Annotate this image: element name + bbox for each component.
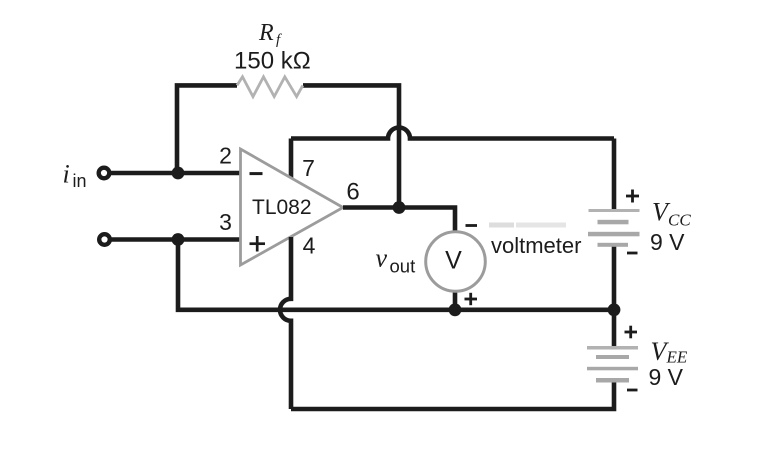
voltmeter plus sign xyxy=(465,293,478,305)
erased artifact smudge near voltmeter label xyxy=(489,223,566,228)
wire input pin3 horizontal xyxy=(111,237,241,242)
wire right rail top to VCC xyxy=(612,139,617,213)
wire pin7 vertical xyxy=(289,139,294,179)
op-amp plus input sign xyxy=(250,236,266,252)
op-amp U1 triangle xyxy=(241,149,344,265)
svg-text:3: 3 xyxy=(219,209,232,235)
wire output pin6 to voltmeter top xyxy=(343,208,455,235)
battery VEE plus sign xyxy=(625,326,638,339)
svg-text:9 V: 9 V xyxy=(650,229,685,255)
svg-text:150 kΩ: 150 kΩ xyxy=(234,48,311,75)
battery VCC plus sign xyxy=(626,190,639,203)
label iin xyxy=(63,160,87,192)
svg-text:4: 4 xyxy=(303,233,316,259)
svg-text:7: 7 xyxy=(302,155,315,181)
svg-text:V: V xyxy=(445,247,462,275)
svg-text:R: R xyxy=(258,20,274,46)
svg-text:9 V: 9 V xyxy=(649,364,684,390)
battery VCC plates xyxy=(588,209,640,247)
label VEE xyxy=(651,337,688,367)
svg-text:i: i xyxy=(63,160,70,189)
resistor Rf zigzag xyxy=(237,77,303,97)
battery VCC minus sign xyxy=(627,252,638,255)
svg-text:f: f xyxy=(276,32,282,48)
svg-text:voltmeter: voltmeter xyxy=(491,233,581,258)
junction output node xyxy=(393,201,406,214)
terminal input bottom xyxy=(99,234,110,245)
voltmeter minus sign xyxy=(466,224,478,227)
wire top rail with hop over feedback xyxy=(291,128,614,139)
label vout xyxy=(376,244,416,277)
wire junction to VEE top xyxy=(612,310,617,349)
terminal input top xyxy=(99,168,110,179)
wire bottom bus from pin3 node xyxy=(178,240,614,310)
svg-text:6: 6 xyxy=(346,179,359,206)
battery VEE plates xyxy=(587,346,638,383)
wire feedback right and down to output node xyxy=(303,85,399,207)
junction voltmeter plus node xyxy=(449,303,462,316)
label Rf xyxy=(258,20,282,48)
wire pin4 vertical with hop over bus xyxy=(280,237,291,409)
wire feedback left vertical and top xyxy=(177,85,237,173)
wire VCC bottom to junction xyxy=(612,244,617,310)
svg-text:CC: CC xyxy=(668,211,691,230)
battery VEE minus sign xyxy=(627,389,638,392)
junction node pin2 xyxy=(172,167,185,180)
svg-text:out: out xyxy=(390,256,416,277)
label VCC xyxy=(652,198,691,230)
svg-text:in: in xyxy=(73,171,87,191)
junction node pin3 xyxy=(172,233,185,246)
junction right rail node xyxy=(608,303,621,316)
wire voltmeter bottom xyxy=(453,291,458,310)
svg-text:TL082: TL082 xyxy=(252,196,312,219)
wire input pin2 horizontal xyxy=(111,171,241,176)
svg-text:v: v xyxy=(376,244,388,273)
op-amp minus input sign xyxy=(250,172,263,175)
svg-text:2: 2 xyxy=(219,143,232,169)
voltmeter V1 circle xyxy=(426,232,486,292)
wire bottom rail xyxy=(291,380,614,409)
